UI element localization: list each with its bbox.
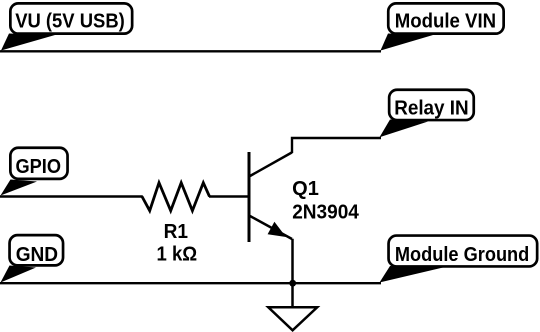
wire: [292, 138, 381, 153]
wire: [0, 195, 143, 197]
ground: [268, 307, 317, 330]
node Relay IN: [380, 90, 474, 138]
transistor Q1: [249, 152, 292, 242]
junction: [289, 280, 296, 287]
svg-text:Module VIN: Module VIN: [395, 10, 496, 32]
svg-text:Q1: Q1: [292, 178, 319, 200]
svg-text:R1: R1: [164, 221, 188, 243]
node Module Ground: [380, 236, 538, 283]
node GPIO: [1, 148, 68, 196]
svg-text:2N3904: 2N3904: [292, 201, 360, 223]
transistor Q1 part number label: [292, 201, 360, 223]
resistor R1 value label: [157, 244, 198, 266]
resistor R1 reference label: [164, 221, 188, 243]
wire: [291, 239, 294, 307]
svg-text:GPIO: GPIO: [16, 156, 62, 178]
wire: [0, 50, 381, 52]
svg-text:Relay IN: Relay IN: [394, 97, 469, 119]
svg-text:Module Ground: Module Ground: [395, 244, 529, 266]
wire: [0, 282, 381, 284]
node GND: [1, 235, 64, 282]
node VU (5V USB): [1, 3, 132, 50]
node Module VIN: [381, 3, 504, 50]
svg-text:VU (5V USB): VU (5V USB): [15, 10, 125, 32]
resistor R1: [142, 183, 210, 211]
svg-text:GND: GND: [16, 244, 58, 266]
svg-text:1 kΩ: 1 kΩ: [157, 244, 198, 266]
transistor Q1 reference label: [292, 178, 319, 200]
wire: [209, 195, 249, 197]
